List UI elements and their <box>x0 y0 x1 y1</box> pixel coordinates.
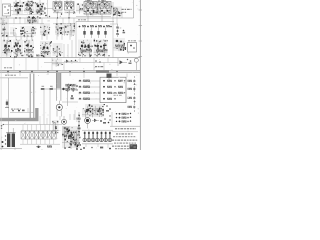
diode row 2 <box>128 88 137 90</box>
chroma stage Q12 <box>40 41 52 58</box>
IF input network <box>76 4 84 14</box>
focus R30 <box>116 113 131 115</box>
paper scan noise <box>1 0 140 150</box>
resistor R22 <box>71 95 74 99</box>
wire <box>117 14 122 25</box>
wire <box>20 143 60 145</box>
video amp stage Q10 <box>13 40 23 59</box>
marks <box>100 118 109 123</box>
marks bottom <box>83 147 111 150</box>
B+ bus <box>0 70 140 72</box>
sheet edge left <box>0 0 2 150</box>
capacitor C11 <box>90 28 92 39</box>
border tick <box>139 25 142 27</box>
focus R32 <box>109 115 131 122</box>
wire <box>112 131 138 133</box>
ladder R25 <box>78 80 100 82</box>
wire <box>62 101 78 103</box>
note text <box>113 136 136 137</box>
resistor R35 <box>47 145 52 147</box>
wire <box>40 110 75 125</box>
bus stubs <box>8 73 117 78</box>
IF amp stage Q4 <box>53 2 63 15</box>
wire <box>0 23 75 25</box>
label <box>11 109 21 110</box>
sound IF stage Q14 <box>94 40 108 58</box>
volume control <box>127 58 139 70</box>
label B+ <box>95 66 103 67</box>
border tick <box>139 9 142 11</box>
wire <box>133 0 135 18</box>
wire <box>1 36 34 38</box>
note text <box>112 146 138 147</box>
label <box>5 75 16 76</box>
focus R31 <box>116 117 131 119</box>
AGC cluster <box>27 16 39 25</box>
capacitor C10 <box>83 28 85 39</box>
pilot lamp PL1 <box>36 146 41 148</box>
sync sep stage <box>55 23 75 37</box>
discriminator T4 <box>114 38 127 51</box>
wire <box>44 62 118 64</box>
note text <box>114 143 136 144</box>
IC row 2 <box>103 86 123 88</box>
trap coil L2 <box>20 26 36 37</box>
trimmer CT1 <box>5 100 9 109</box>
wire <box>16 0 71 3</box>
diode row 3 <box>128 97 137 99</box>
video amp stage Q9 <box>2 40 13 58</box>
resistor chain R12 <box>110 24 125 37</box>
warning label <box>113 93 124 96</box>
wire <box>76 22 114 58</box>
capacitor C12 <box>97 28 99 39</box>
mixer stage Q2 <box>24 1 34 15</box>
delay line DL1 <box>65 84 78 92</box>
oscillator stage Q3 <box>35 2 46 16</box>
diode D5 <box>64 60 78 63</box>
diode row 1 <box>128 80 137 82</box>
wire <box>82 144 113 148</box>
diode row 4 <box>128 106 137 108</box>
marks above T1 <box>85 0 105 10</box>
wire <box>76 16 111 18</box>
shielded cable <box>56 73 61 101</box>
wire <box>112 2 114 58</box>
wire <box>4 34 70 40</box>
damper diode D6 <box>92 119 99 123</box>
video amp stage Q11 <box>24 40 34 58</box>
note text <box>115 128 136 129</box>
shield bottom <box>0 108 39 121</box>
sound takeoff cluster <box>52 59 63 67</box>
stubs below S1 <box>23 139 54 144</box>
border tick <box>139 40 142 42</box>
wire <box>44 90 68 125</box>
wire <box>126 74 128 78</box>
transistor Q15 <box>56 101 62 117</box>
IF transformer T1 <box>84 0 98 22</box>
IC row 3 <box>103 92 125 94</box>
thermistor cluster <box>76 112 82 150</box>
terminal marks <box>1 124 4 129</box>
IF transformer T2 <box>98 0 112 22</box>
video peaking stage <box>40 23 50 36</box>
audio driver parts <box>62 126 70 139</box>
diode D3 <box>118 58 127 66</box>
wire <box>58 12 70 19</box>
detector stage D1 <box>113 7 122 17</box>
wire <box>0 57 140 59</box>
note text <box>112 140 138 141</box>
driver cluster <box>52 120 59 135</box>
wire <box>2 124 62 126</box>
extra dark specks row1 <box>15 2 72 13</box>
wire <box>12 14 44 16</box>
stubs above S1 <box>23 125 54 132</box>
IF amp stage Q5 <box>65 2 76 16</box>
border tick <box>139 56 142 58</box>
resistor row R8-R11 <box>79 25 112 27</box>
wire <box>3 18 74 24</box>
wire <box>45 0 54 18</box>
fuse F1 <box>1 138 3 150</box>
capacitor C25 <box>62 88 64 90</box>
transistor Q17 <box>85 118 91 129</box>
output transformer T6 <box>70 130 80 146</box>
deflection cluster <box>82 108 104 118</box>
RF amp stage Q1 <box>13 2 24 16</box>
label AGC <box>4 67 12 68</box>
row above bus <box>21 54 110 56</box>
resistor R21 <box>50 86 53 90</box>
label under line <box>78 19 86 20</box>
wire <box>14 58 52 71</box>
input filter <box>1 19 8 26</box>
resistor R20 <box>41 86 44 90</box>
wire <box>110 112 140 126</box>
dashed boundary <box>134 76 136 113</box>
sound IF stage Q13 <box>78 40 93 58</box>
bus junction dots <box>7 71 117 72</box>
note text <box>115 148 129 149</box>
tuner switch bank S1 <box>21 131 56 139</box>
wire <box>0 148 22 151</box>
sheet border right <box>139 0 141 150</box>
wire stubs <box>64 58 108 71</box>
label <box>122 9 132 13</box>
transistor Q16 <box>62 116 67 124</box>
row in box <box>10 108 34 112</box>
ladder R28 <box>78 98 100 100</box>
ladder R27 <box>78 92 100 94</box>
wire <box>0 77 28 79</box>
left component column <box>1 24 17 37</box>
junction dots <box>15 17 69 18</box>
wire <box>8 78 10 118</box>
electrolytic block C20 <box>128 40 137 52</box>
power transformer T5 <box>5 121 16 147</box>
wire <box>40 88 76 90</box>
CRT socket cluster <box>85 104 111 115</box>
rectifier D4 <box>107 74 112 81</box>
approval stamp <box>130 144 138 149</box>
IC U1 box <box>100 77 126 102</box>
IC row 4 <box>103 98 116 100</box>
shield wall <box>30 74 34 119</box>
ladder R26 <box>78 86 100 88</box>
wire <box>0 17 134 19</box>
capacitor C13 <box>104 28 106 39</box>
wire <box>64 40 72 58</box>
bias network <box>53 43 64 57</box>
audio output cluster <box>62 126 81 149</box>
IC row 1 <box>103 80 125 82</box>
note text <box>116 133 133 134</box>
electrolytic bank <box>82 130 113 142</box>
tuner module box TU1 <box>3 4 14 18</box>
